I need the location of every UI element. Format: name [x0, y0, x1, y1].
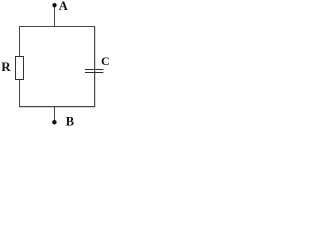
resistor R body [16, 57, 24, 80]
svg-text:B: B [66, 115, 74, 129]
wire: left vertical [19, 26, 21, 107]
node A terminal dot [52, 3, 56, 7]
node B terminal dot [52, 120, 57, 125]
wire: top horizontal [19, 26, 95, 28]
wire: right vertical [94, 26, 96, 107]
svg-text:A: A [59, 0, 68, 13]
svg-text:C: C [101, 54, 110, 68]
wire: node B stub [54, 107, 56, 122]
svg-text:R: R [1, 59, 11, 74]
capacitor C top plate [85, 69, 103, 71]
capacitor C bottom plate [85, 72, 103, 74]
wire: node A stub [54, 5, 56, 26]
wire: bottom horizontal [19, 106, 95, 108]
